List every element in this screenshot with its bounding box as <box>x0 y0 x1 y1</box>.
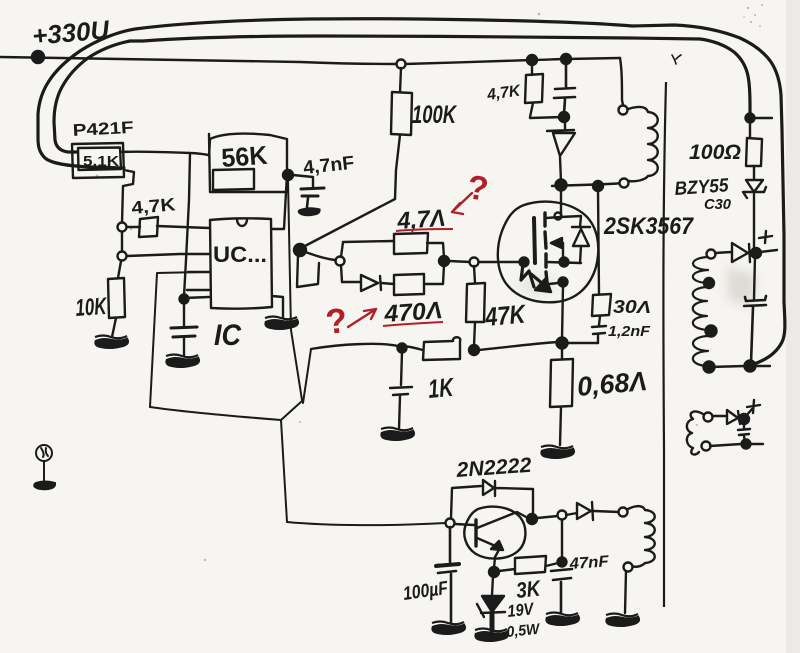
capacitor mini <box>738 421 750 442</box>
wire: rail to 100K <box>400 68 401 92</box>
wire: 47ohm to right node <box>427 243 444 257</box>
node dot at cap junction <box>180 295 189 304</box>
diode D1 (clamp) <box>547 118 575 182</box>
wire: output right stub <box>760 250 777 252</box>
svg-text:0,5W: 0,5W <box>506 620 542 641</box>
wire: circle to 4.7K <box>127 226 140 228</box>
capacitor 47nF plates <box>551 569 572 612</box>
node open circle secondary top <box>707 250 716 259</box>
100K RESISTOR <box>294 60 412 288</box>
wire: top rail corner down to winding <box>620 58 623 105</box>
node gate dot <box>520 258 529 267</box>
wire: long vertical from 56K node down <box>288 180 302 400</box>
wire: P421F output to 56K <box>121 152 209 155</box>
svg-text:?: ? <box>324 301 349 342</box>
channel dashes <box>545 213 547 282</box>
svg-text:100Ω: 100Ω <box>689 141 741 164</box>
wire: outer loop L1 (P421F to top rail to right edge down to output return) <box>38 19 785 365</box>
middle tap with arrow <box>554 243 563 258</box>
node dot D4 out <box>739 414 749 424</box>
node open circle winding bottom <box>620 179 629 188</box>
node UC output blob <box>294 244 306 256</box>
winding W4 <box>687 411 703 454</box>
ground for 4.7nF <box>298 208 320 216</box>
svg-text:1K: 1K <box>427 372 456 404</box>
red arrow to 47ohm <box>452 193 472 214</box>
wire: 4.7K to UC pin1 <box>157 226 209 228</box>
node dot 4.7K top <box>527 55 537 65</box>
svg-text:4,7K: 4,7K <box>131 194 177 218</box>
node bottom dot <box>745 361 756 372</box>
wire: dot to UC left edge <box>184 297 209 298</box>
diode D6 right of 47nF node <box>566 502 619 520</box>
svg-text:UC...: UC... <box>213 242 267 267</box>
wire: 1K wire continues left <box>311 344 398 349</box>
gate bar <box>534 218 535 263</box>
body diode bar <box>572 226 590 228</box>
OUTPUT SECTION (right of divider) <box>693 231 777 373</box>
ground 10K <box>95 336 128 348</box>
MAIN TOP AREA <box>0 19 785 365</box>
doodle plant left bottom <box>34 445 55 489</box>
wire between circles <box>121 232 123 251</box>
diode D4 <box>713 410 740 424</box>
wire: 47K down to source rail <box>474 322 475 346</box>
node open circle winding top <box>619 106 628 115</box>
UC IC SECTION <box>171 218 283 356</box>
MINI OUTPUT SECTION <box>687 400 763 455</box>
node dot below cap <box>559 112 569 122</box>
node dot 47K/1K junction <box>469 345 479 355</box>
node dot cap tap <box>398 344 407 353</box>
node dot snubber tap <box>593 181 603 191</box>
capacitor IC bypass plates <box>171 327 197 328</box>
paper speckles <box>96 4 763 561</box>
node source bottom dot <box>559 278 568 287</box>
red underline 470ohm <box>383 322 443 326</box>
wire: box outline bottom <box>150 407 281 420</box>
svg-text:2SK3567: 2SK3567 <box>603 213 694 240</box>
node open circle W3 top <box>619 508 628 517</box>
wire: stub right of dot <box>754 117 772 119</box>
capacitor top plates <box>554 62 575 114</box>
zener 19V <box>477 576 505 617</box>
ground 47nF <box>546 613 579 625</box>
svg-text:1,2nF: 1,2nF <box>608 323 651 340</box>
wire: blob to left node of gate resistors <box>305 252 335 260</box>
source tap <box>546 262 581 263</box>
wire: loop down to collector <box>532 489 534 515</box>
wire: down to 47nF <box>561 520 563 557</box>
svg-text:IC: IC <box>214 319 242 352</box>
node open circle lower <box>118 252 127 261</box>
wire: base into circle <box>455 524 474 525</box>
wire: 4.7K bottom to cap bottom node <box>530 117 563 118</box>
node 56K output dot <box>283 170 293 180</box>
node collector dot <box>527 514 537 524</box>
diode D5 over transistor <box>483 480 532 496</box>
wire: source rail left to 1K <box>478 342 557 350</box>
wire: node down to 47K <box>474 266 475 283</box>
node dot source rail <box>557 338 568 349</box>
node open circle W3 bottom <box>624 563 633 572</box>
ground UC pin <box>265 317 298 329</box>
node tap dot 1 <box>704 278 714 288</box>
body diode triangle <box>573 229 589 246</box>
wire: 56K node to 4.7nF cap <box>293 175 313 187</box>
wire: right node to gate <box>449 261 470 262</box>
transistor Q2 2N2222 circle <box>464 507 525 559</box>
resistor 4,7K small box <box>139 217 158 237</box>
diode in 470 branch <box>361 275 378 291</box>
wire: UC pin3 left <box>188 271 209 273</box>
wire: 10K to ground <box>112 318 116 337</box>
wire: from 1K wire down <box>303 349 311 403</box>
wire: dot down to cap <box>183 302 185 326</box>
node dot cap top <box>561 54 571 64</box>
resistor 100ohm box <box>746 138 762 166</box>
wire: +330V horizontal rail <box>0 57 620 64</box>
ground 0.68 <box>541 446 574 458</box>
wire: UC bottom-right pin to ground <box>272 296 283 318</box>
emitter line with arrow <box>477 538 500 568</box>
P421F SECTION <box>72 143 209 296</box>
node right dot <box>439 256 449 266</box>
capacitor output plates <box>744 296 766 363</box>
UC notch <box>237 220 247 226</box>
svg-text:C30: C30 <box>704 196 732 213</box>
resistor 56K body box <box>213 169 254 190</box>
resistor 4,7K top box <box>525 62 543 117</box>
SOURCE RAIL + 0.68 + 1K <box>311 337 598 445</box>
wire: mini bottom rail <box>710 444 763 446</box>
RIGHT SIDE: 100ohm + zener chain <box>743 114 772 251</box>
wire: corner to base rail <box>281 401 302 522</box>
56K RESISTOR <box>209 134 313 229</box>
red underline 47ohm <box>396 229 453 231</box>
node dot drain rail left <box>556 180 567 191</box>
wire: to MOSFET gate <box>479 261 520 263</box>
resistor 56K outer box <box>209 134 287 192</box>
wire: inner loop L2 (P421F to top rail to 100ohm chain) <box>54 36 750 152</box>
transformer secondary winding W2 <box>693 257 708 366</box>
wire: collector to 47nF node <box>537 516 558 518</box>
node tap dot 2 <box>706 326 717 337</box>
wire: zener down to output node <box>753 194 755 250</box>
svg-text:19V: 19V <box>506 599 535 621</box>
pencil shading inside MOSFET <box>517 274 557 296</box>
wire + plus <box>746 400 760 416</box>
node open circle at 47K top <box>470 258 479 267</box>
optocoupler P421F outer box <box>72 143 124 178</box>
node open circle base <box>446 519 455 528</box>
47K RESISTOR <box>466 266 485 346</box>
node open circle W4 top <box>704 413 713 422</box>
node open circle upper <box>118 223 127 232</box>
base bar <box>474 520 477 546</box>
zener diode BZY55C30 <box>743 180 766 198</box>
wire: snubber vertical <box>598 189 599 294</box>
resistor 0,68ohm box <box>550 347 573 445</box>
node open circle W4 bottom <box>702 442 711 451</box>
svg-text:56K: 56K <box>220 140 268 173</box>
resistor 47K box <box>466 283 485 322</box>
wire: UC pin4 left <box>187 289 209 291</box>
wire: up branch left <box>341 241 394 257</box>
drain tap <box>546 190 561 218</box>
wire: snubber to source rail <box>567 342 598 344</box>
wire: dot to 100ohm <box>749 121 751 138</box>
resistor 100K box <box>391 92 412 135</box>
small circle drain corner <box>555 213 562 220</box>
svg-text:47K: 47K <box>483 298 528 332</box>
svg-text:47nF: 47nF <box>568 553 610 573</box>
MOSFET 2SK3567 <box>498 190 598 349</box>
node open circle 47nF top <box>558 511 567 520</box>
BIG OUTLINE BOX + long verticals <box>150 180 446 525</box>
ground zener 19V <box>475 629 508 641</box>
capacitor 1,2nF <box>592 316 606 343</box>
wire: lower circle down to 10K <box>118 261 121 278</box>
node dot 3K/47nF <box>558 558 567 567</box>
diode D3 output <box>715 243 750 262</box>
node dot mini bottom <box>742 440 751 449</box>
wire: 470ohm to right node <box>424 265 444 284</box>
body diode connections <box>561 216 581 263</box>
svg-text:10K: 10K <box>75 293 109 322</box>
node +330V input dot <box>32 51 44 63</box>
op-amp/controller UC box <box>210 218 272 308</box>
wire: lower circle to UC pin2 <box>127 254 209 256</box>
wire: box outline left <box>150 272 201 407</box>
resistor 30ohm box <box>592 294 611 316</box>
LEFT 4,7K + 10K <box>108 217 209 337</box>
svg-text:P421F: P421F <box>72 118 134 140</box>
node emitter dot <box>489 567 499 577</box>
wire: down branch left <box>341 265 360 282</box>
ground 100uF <box>432 622 465 634</box>
node output dot <box>751 248 761 258</box>
node tap dot 3 <box>704 362 715 373</box>
wire: bottom rail <box>709 366 770 367</box>
ground 1K cap <box>381 428 414 440</box>
wire: base rail horizontal <box>287 522 446 525</box>
node open circle on rail <box>397 60 406 69</box>
red arrow to 470ohm <box>348 309 376 327</box>
transformer primary winding W1 <box>628 107 658 181</box>
wire: 1K left <box>402 346 423 350</box>
wire: vertical from P421F wire down to UC pins <box>184 153 190 296</box>
capacitor 4,7nF <box>301 188 324 207</box>
wire: small loop below blob <box>297 255 319 287</box>
svg-text:5,1K: 5,1K <box>83 153 119 170</box>
transistor Q1 circle <box>498 202 598 303</box>
wire: 100K down <box>395 135 400 199</box>
svg-text:100K: 100K <box>412 101 457 129</box>
collector line <box>477 512 528 528</box>
ground W3 <box>606 614 639 626</box>
wire: diagonal 100K to UC output node <box>303 199 395 247</box>
resistor 1K box with curl <box>423 337 460 360</box>
wire: W3 bottom to ground <box>625 571 626 613</box>
wire: 56K right edge down to UC pin <box>272 175 287 229</box>
wire: vertical divider <box>663 82 666 607</box>
resistor 3K box <box>499 556 558 574</box>
node left open circle <box>336 257 345 266</box>
resistor 47ohm box <box>394 233 428 254</box>
node source tap dot <box>560 258 569 267</box>
small tick mark <box>672 55 681 64</box>
ground IC bypass <box>166 355 199 367</box>
optocoupler P421F inner box <box>78 148 121 171</box>
SNUBBER 30ohm + 1.2nF <box>592 189 611 343</box>
wire: loop up from base <box>451 486 481 518</box>
resistor 470ohm box <box>394 274 424 295</box>
capacitor at 1K plates <box>390 352 412 429</box>
TOP MIDDLE: 4.7K, cap, diode, winding <box>525 54 658 191</box>
wire: P421F lower right step down <box>122 170 134 223</box>
resistor 10K box <box>108 278 125 318</box>
BOTTOM: 2N2222 SECTION <box>436 480 655 630</box>
wire: drain rail <box>552 183 624 186</box>
wire: source down to rail <box>562 286 563 339</box>
plus sign output <box>759 231 772 243</box>
pencil shading <box>727 266 757 307</box>
wire: to zener <box>753 166 755 179</box>
capacitor 100uF <box>437 527 459 622</box>
svg-text:0,68Λ: 0,68Λ <box>576 366 648 402</box>
node dot on L2 <box>746 114 755 123</box>
transformer winding W3 <box>628 506 655 567</box>
svg-text:30Λ: 30Λ <box>613 297 651 317</box>
wire: output node down to cap <box>754 256 755 299</box>
GATE RESISTOR NETWORK 47/470 <box>336 233 521 295</box>
source arrow zigzag <box>521 264 543 287</box>
